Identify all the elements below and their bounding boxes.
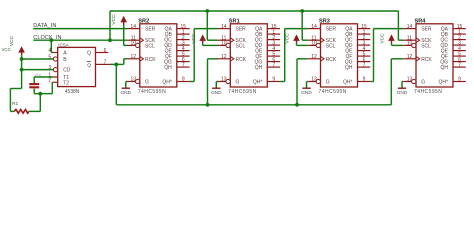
svg-text:QH: QH bbox=[255, 65, 263, 71]
IC5A CD bubble bbox=[53, 68, 57, 72]
svg-text:VCC: VCC bbox=[2, 47, 11, 52]
SR2 SCK clock wedge bbox=[140, 38, 144, 43]
SR2 pin SCL stub bbox=[127, 44, 136, 46]
wire RCK bottom rail bbox=[116, 104, 391, 106]
wire cascade 3 to SER bbox=[374, 28, 404, 30]
SR3 pin RCK stub bbox=[308, 58, 321, 60]
wire SR3 GND drop bbox=[306, 82, 308, 88]
svg-text:A: A bbox=[63, 51, 67, 57]
svg-text:GND: GND bbox=[301, 90, 312, 96]
junction VCC / CD line bbox=[20, 68, 24, 72]
shift register SR2 74HC595N bbox=[140, 24, 177, 87]
SR2 pin RCK stub bbox=[127, 58, 140, 60]
wire SR4 SCK link bbox=[398, 39, 403, 41]
svg-text:SR3: SR3 bbox=[319, 18, 330, 24]
SR1 pin SCL stub bbox=[218, 44, 227, 46]
SR3 pin QG stub bbox=[358, 61, 371, 63]
shift register SR3 74HC595N bbox=[321, 24, 358, 87]
svg-text:G: G bbox=[236, 80, 240, 86]
wire VCC chain down bbox=[21, 55, 23, 88]
svg-text:SR4: SR4 bbox=[415, 18, 427, 24]
SR2 pin QC stub bbox=[177, 39, 190, 41]
SR2 G bubble bbox=[136, 79, 140, 83]
SR2 RCK clock wedge bbox=[140, 56, 144, 61]
wire SR1 clock drop bbox=[206, 11, 208, 40]
wire SR4 VCC to SCL bbox=[392, 44, 404, 46]
SR1 pin G stub bbox=[218, 81, 227, 83]
wire VCC chain left bbox=[10, 88, 21, 90]
SR3 pin SCK stub bbox=[308, 39, 321, 41]
SR2 pin QH* stub bbox=[177, 81, 190, 83]
svg-text:12: 12 bbox=[221, 54, 227, 60]
svg-text:Q: Q bbox=[87, 62, 91, 68]
wire cascade 3 riser bbox=[373, 29, 375, 82]
wire VCC to B bbox=[22, 58, 53, 60]
IC5A pin A stub bbox=[53, 52, 58, 54]
svg-text:SCL: SCL bbox=[326, 43, 336, 49]
wire cascade 1 QH* out bbox=[190, 81, 195, 83]
svg-text:7: 7 bbox=[104, 60, 107, 66]
wire SR1 RCK link bbox=[208, 58, 218, 60]
svg-text:SER: SER bbox=[145, 27, 156, 33]
junction CLOCK_IN / IC5A A branch bbox=[49, 38, 53, 42]
svg-text:CD: CD bbox=[63, 68, 71, 74]
svg-text:10: 10 bbox=[311, 41, 317, 47]
SR3 pin QH stub bbox=[358, 66, 371, 68]
wire cascade 1 to SER bbox=[194, 28, 217, 30]
SR3 pin G stub bbox=[308, 81, 317, 83]
ground symbol SR4 bbox=[398, 87, 406, 89]
svg-text:12: 12 bbox=[407, 54, 413, 60]
ground symbol SR1 bbox=[212, 87, 220, 89]
SR3 pin QE stub bbox=[358, 50, 371, 52]
SR3 pin QF stub bbox=[358, 55, 371, 57]
SR1 pin QH stub bbox=[267, 66, 280, 68]
VCC supply arrow SR3 bbox=[293, 34, 300, 40]
wire SR4 clock drop bbox=[397, 11, 399, 40]
wire SR1 G to GND bbox=[216, 81, 217, 83]
wire SR2 RCK link bbox=[124, 58, 127, 60]
SR3 pin QD stub bbox=[358, 44, 371, 46]
SR4 pin QH* stub bbox=[453, 81, 466, 83]
SR1 pin QA stub bbox=[267, 28, 280, 30]
svg-text:QH*: QH* bbox=[162, 80, 172, 86]
svg-text:13: 13 bbox=[221, 77, 227, 83]
svg-text:VCC: VCC bbox=[191, 33, 197, 44]
SR1 pin QF stub bbox=[267, 55, 280, 57]
wire SR3 clock drop bbox=[301, 11, 303, 40]
SR2 pin SER stub bbox=[127, 28, 140, 30]
wire R1 riser bbox=[39, 94, 41, 112]
SR2 pin QE stub bbox=[177, 50, 190, 52]
junction bottom rail / SR3 riser bbox=[295, 103, 299, 107]
IC5A pin T2 stub bbox=[53, 81, 58, 83]
svg-text:14: 14 bbox=[407, 24, 413, 30]
SR4 pin QB stub bbox=[453, 33, 466, 35]
wire SR4 GND drop bbox=[401, 82, 403, 88]
wire SR1 VCC stem bbox=[202, 43, 204, 45]
svg-text:10: 10 bbox=[221, 41, 227, 47]
svg-text:7: 7 bbox=[458, 62, 461, 68]
wire cascade 3 QH* out bbox=[370, 81, 373, 83]
svg-text:12: 12 bbox=[131, 54, 137, 60]
SR3 pin SER stub bbox=[308, 28, 321, 30]
SR4 pin G stub bbox=[403, 81, 412, 83]
junction bottom rail / SR1 riser bbox=[206, 103, 210, 107]
svg-text:G: G bbox=[421, 80, 425, 86]
wire SR3 RCK riser bbox=[296, 59, 298, 105]
wire SR2 RCK rail drop bbox=[115, 64, 117, 104]
svg-text:7: 7 bbox=[272, 62, 275, 68]
SR1 G bubble bbox=[226, 79, 230, 83]
VCC supply arrow SR4 bbox=[388, 34, 395, 40]
svg-text:9: 9 bbox=[363, 77, 366, 83]
SR2 pin QA stub bbox=[177, 28, 190, 30]
resistor R1 bbox=[14, 110, 29, 114]
svg-text:CLOCK_IN: CLOCK_IN bbox=[33, 35, 61, 41]
wire SR2 clock drop bbox=[109, 11, 111, 40]
wire R1 right lead bbox=[29, 110, 40, 112]
SR4 SCK clock wedge bbox=[416, 38, 420, 43]
wire SR4 G to GND bbox=[402, 81, 403, 83]
IC5A pin T1 stub bbox=[53, 76, 58, 78]
svg-text:SCL: SCL bbox=[236, 43, 246, 49]
wire SR4 RCK link bbox=[391, 58, 403, 60]
IC5A pin B stub bbox=[52, 58, 55, 60]
wire SR1 VCC to SCL bbox=[203, 44, 218, 46]
SR4 pin QE stub bbox=[453, 50, 466, 52]
svg-text:SCL: SCL bbox=[145, 43, 155, 49]
svg-text:4: 4 bbox=[48, 48, 51, 54]
junction top rail / SR3 clock drop bbox=[300, 9, 304, 13]
wire SR2 RCK jog up bbox=[123, 59, 125, 65]
svg-text:VCC: VCC bbox=[9, 35, 15, 46]
svg-text:VCC: VCC bbox=[285, 33, 291, 44]
SR3 pin QA stub bbox=[358, 28, 371, 30]
svg-text:13: 13 bbox=[311, 77, 317, 83]
ground symbol SR3 bbox=[302, 87, 310, 89]
wire C1 bottom link bbox=[34, 93, 52, 95]
svg-text:QH*: QH* bbox=[253, 80, 263, 86]
SR1 pin QH* stub bbox=[267, 81, 280, 83]
svg-text:7: 7 bbox=[363, 62, 366, 68]
shift register SR4 74HC595N bbox=[416, 24, 453, 87]
svg-text:T2: T2 bbox=[63, 80, 69, 86]
wire C1 top lead bbox=[33, 77, 35, 83]
SR2 pin G stub bbox=[127, 81, 136, 83]
svg-text:B: B bbox=[63, 57, 67, 63]
SR1 pin QC stub bbox=[267, 39, 280, 41]
wire SR3 VCC stem bbox=[296, 43, 298, 45]
wire clock top rail bbox=[110, 10, 398, 12]
svg-text:SER: SER bbox=[236, 27, 247, 33]
svg-text:QH*: QH* bbox=[439, 80, 449, 86]
svg-text:DATA_IN: DATA_IN bbox=[33, 23, 56, 29]
SR4 pin SCL stub bbox=[403, 44, 412, 46]
SR2 pin SCK stub bbox=[127, 39, 140, 41]
svg-text:GND: GND bbox=[211, 90, 222, 96]
op-amp/monostable IC5A 4538N box bbox=[58, 47, 96, 86]
SR1 SCK clock wedge bbox=[230, 38, 234, 43]
SR4 pin QA stub bbox=[453, 28, 466, 30]
SR1 pin SER stub bbox=[218, 28, 231, 30]
wire cascade 2 riser bbox=[284, 29, 286, 82]
svg-text:10: 10 bbox=[407, 41, 413, 47]
wire VCC to CD bbox=[22, 69, 53, 71]
SR3 pin SCL stub bbox=[308, 44, 317, 46]
SR1 pin SCK stub bbox=[218, 39, 231, 41]
SR2 pin QG stub bbox=[177, 61, 190, 63]
svg-text:QH*: QH* bbox=[343, 80, 353, 86]
svg-text:14: 14 bbox=[311, 24, 317, 30]
svg-text:RCK: RCK bbox=[421, 57, 432, 63]
wire down to R1 bbox=[9, 89, 11, 112]
wire SR3 RCK link bbox=[297, 58, 308, 60]
wire cascade 1 riser bbox=[193, 29, 195, 82]
junction CLOCK_IN / top rail drop bbox=[108, 38, 112, 42]
SR3 pin QC stub bbox=[358, 39, 371, 41]
SR4 pin SCK stub bbox=[403, 39, 416, 41]
junction VCC / B line bbox=[20, 57, 24, 61]
SR1 pin QD stub bbox=[267, 44, 280, 46]
wire T2 riser bbox=[51, 82, 53, 93]
IC5A pin Q stub bbox=[96, 52, 109, 54]
svg-text:VCC: VCC bbox=[111, 14, 117, 25]
svg-text:14: 14 bbox=[131, 24, 137, 30]
SR4 G bubble bbox=[412, 79, 416, 83]
svg-text:G: G bbox=[145, 80, 149, 86]
VCC supply arrow SR2 bbox=[120, 16, 127, 23]
SR1 SCL bubble bbox=[226, 43, 230, 47]
wire SR4 VCC stem bbox=[391, 43, 393, 45]
svg-text:QH: QH bbox=[164, 65, 172, 71]
wire SR3 G to GND bbox=[307, 81, 308, 83]
svg-text:74HC595N: 74HC595N bbox=[414, 89, 442, 95]
SR3 pin QB stub bbox=[358, 33, 371, 35]
ground symbol SR2 bbox=[122, 87, 130, 89]
svg-text:74HC595N: 74HC595N bbox=[138, 89, 166, 95]
svg-text:9: 9 bbox=[182, 77, 185, 83]
svg-text:IC5A: IC5A bbox=[58, 42, 69, 48]
svg-text:13: 13 bbox=[131, 77, 137, 83]
svg-text:RCK: RCK bbox=[326, 57, 337, 63]
SR2 pin QF stub bbox=[177, 55, 190, 57]
SR2 SCL bubble bbox=[136, 43, 140, 47]
wire C1 bottom lead bbox=[33, 89, 35, 94]
svg-text:SER: SER bbox=[421, 27, 432, 33]
VCC supply arrow SR1 bbox=[199, 34, 206, 40]
svg-text:10: 10 bbox=[131, 41, 137, 47]
svg-text:SCL: SCL bbox=[421, 43, 431, 49]
svg-text:14: 14 bbox=[221, 24, 227, 30]
svg-text:QH: QH bbox=[441, 65, 449, 71]
wire SR3 SCK link bbox=[302, 39, 308, 41]
wire R1 left lead bbox=[10, 110, 14, 112]
SR4 SCL bubble bbox=[412, 43, 416, 47]
svg-text:2: 2 bbox=[48, 78, 51, 84]
junction R1 / C1 / T2 bbox=[38, 92, 42, 96]
svg-text:Q: Q bbox=[87, 51, 91, 57]
wire cascade 2 to SER bbox=[285, 28, 308, 30]
SR1 pin QB stub bbox=[267, 33, 280, 35]
svg-text:SR1: SR1 bbox=[229, 18, 240, 24]
wire SR2 GND drop bbox=[125, 82, 127, 88]
SR3 pin QH* stub bbox=[358, 81, 371, 83]
wire SR1 GND drop bbox=[215, 82, 217, 88]
wire SR4 RCK riser bbox=[390, 59, 392, 105]
SR3 RCK clock wedge bbox=[321, 56, 325, 61]
SR2 pin QD stub bbox=[177, 44, 190, 46]
wire T2 link bbox=[51, 81, 54, 83]
wire SR3 VCC to SCL bbox=[297, 44, 308, 46]
svg-text:GND: GND bbox=[120, 90, 131, 96]
wire IC5A A link bbox=[51, 52, 53, 54]
svg-text:RCK: RCK bbox=[145, 57, 156, 63]
junction Q-bar / rail drop bbox=[114, 63, 118, 67]
wire CLOCK_IN bbox=[33, 39, 127, 41]
wire IC5A A drop bbox=[50, 40, 52, 52]
shift register SR1 74HC595N bbox=[230, 24, 267, 87]
IC5A B bubble bbox=[53, 57, 57, 61]
wire SR1 SCK link bbox=[207, 39, 217, 41]
svg-text:74HC595N: 74HC595N bbox=[228, 89, 256, 95]
IC5A pin CD stub bbox=[52, 69, 55, 71]
wire SR2 G to GND bbox=[126, 81, 127, 83]
SR1 pin QG stub bbox=[267, 61, 280, 63]
SR3 G bubble bbox=[316, 79, 320, 83]
wire T1 line bbox=[34, 76, 53, 78]
SR3 SCK clock wedge bbox=[321, 38, 325, 43]
svg-text:G: G bbox=[326, 80, 330, 86]
svg-text:12: 12 bbox=[311, 54, 317, 60]
svg-text:74HC595N: 74HC595N bbox=[319, 89, 347, 95]
wire IC5A Q-bar out bbox=[111, 63, 124, 65]
wire cascade 2 QH* out bbox=[280, 81, 285, 83]
svg-text:7: 7 bbox=[182, 62, 185, 68]
svg-text:6: 6 bbox=[104, 48, 107, 54]
svg-text:4538N: 4538N bbox=[65, 89, 80, 95]
svg-text:VCC: VCC bbox=[380, 33, 386, 44]
SR4 pin QG stub bbox=[453, 61, 466, 63]
wire DATA_IN bbox=[33, 28, 127, 30]
SR2 pin QB stub bbox=[177, 33, 190, 35]
svg-text:R1: R1 bbox=[12, 101, 18, 107]
SR3 SCL bubble bbox=[316, 43, 320, 47]
svg-text:QH: QH bbox=[345, 65, 353, 71]
SR4 pin SER stub bbox=[403, 28, 416, 30]
svg-text:9: 9 bbox=[272, 77, 275, 83]
svg-text:13: 13 bbox=[407, 77, 413, 83]
SR4 RCK clock wedge bbox=[416, 56, 420, 61]
junction top rail / SR1 clock drop bbox=[205, 9, 209, 13]
wire SR2 VCC stem bbox=[123, 25, 125, 45]
svg-text:RCK: RCK bbox=[236, 57, 247, 63]
wire SR2 VCC to SCL bbox=[124, 44, 127, 46]
SR4 pin QF stub bbox=[453, 55, 466, 57]
SR1 pin QE stub bbox=[267, 50, 280, 52]
svg-text:SR2: SR2 bbox=[138, 18, 149, 24]
SR4 pin QD stub bbox=[453, 44, 466, 46]
SR1 RCK clock wedge bbox=[230, 56, 234, 61]
svg-text:SER: SER bbox=[326, 27, 337, 33]
VCC supply arrow IC5A bbox=[18, 46, 25, 52]
SR1 pin RCK stub bbox=[218, 58, 231, 60]
capacitor C1 bbox=[29, 83, 39, 85]
SR4 pin QH stub bbox=[453, 66, 466, 68]
IC5A pin Q-bar stub bbox=[96, 63, 111, 65]
SR4 pin QC stub bbox=[453, 39, 466, 41]
svg-text:9: 9 bbox=[458, 77, 461, 83]
svg-text:GND: GND bbox=[397, 90, 408, 96]
wire SR1 RCK riser bbox=[207, 59, 209, 105]
SR4 pin RCK stub bbox=[403, 58, 416, 60]
SR2 pin QH stub bbox=[177, 66, 190, 68]
